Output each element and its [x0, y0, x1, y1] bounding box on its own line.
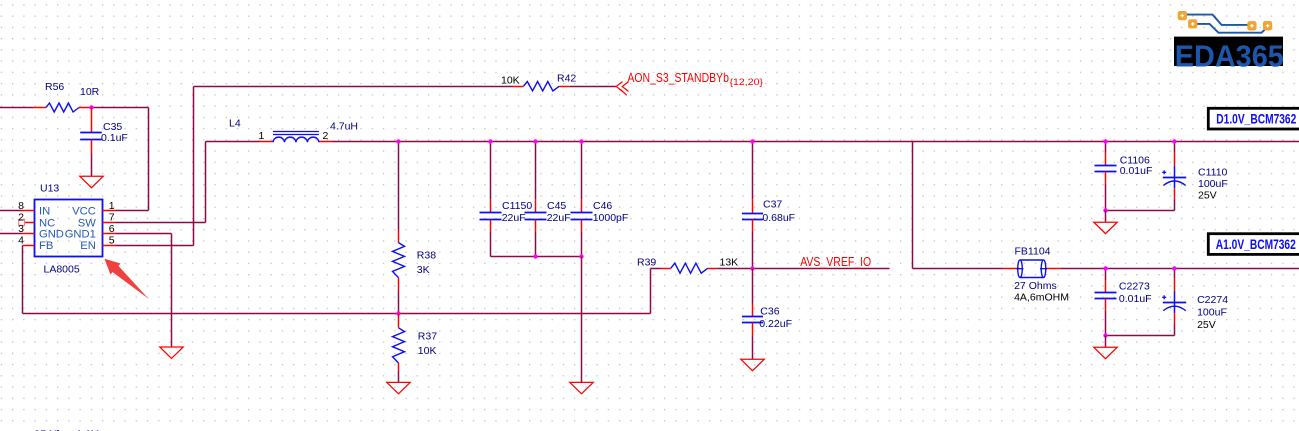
- svg-text:C1150: C1150: [502, 200, 532, 212]
- svg-text:0.68uF: 0.68uF: [762, 212, 795, 224]
- svg-text:D1.0V_BCM7362: D1.0V_BCM7362: [1216, 111, 1296, 127]
- svg-text:C2273: C2273: [1119, 280, 1150, 292]
- svg-text:GND1: GND1: [65, 228, 96, 240]
- svg-text:EDA365: EDA365: [1175, 39, 1284, 73]
- svg-text:1000pF: 1000pF: [593, 212, 629, 224]
- svg-text:{12,20}: {12,20}: [730, 77, 764, 88]
- svg-text:1: 1: [109, 200, 115, 212]
- svg-text:13K: 13K: [720, 257, 739, 269]
- svg-text:EN: EN: [80, 240, 96, 252]
- svg-text:R39: R39: [637, 257, 656, 269]
- svg-text:FB: FB: [39, 240, 53, 252]
- svg-text:3: 3: [18, 223, 24, 235]
- svg-text:6: 6: [109, 223, 115, 235]
- svg-text:VCC: VCC: [72, 205, 96, 217]
- svg-text:2: 2: [18, 212, 24, 224]
- svg-text:0.22uF: 0.22uF: [759, 318, 792, 330]
- svg-text:27 Ohms: 27 Ohms: [1014, 280, 1057, 292]
- svg-text:3K: 3K: [417, 264, 430, 276]
- svg-text:L4: L4: [229, 118, 241, 130]
- svg-text:R38: R38: [417, 250, 436, 262]
- svg-text:25V: 25V: [1198, 189, 1217, 201]
- svg-text:22uF: 22uF: [547, 212, 571, 224]
- svg-text:4A,6mOHM: 4A,6mOHM: [1014, 291, 1069, 303]
- svg-text:AON_S3_STANDBYb: AON_S3_STANDBYb: [627, 71, 729, 85]
- svg-text:C2274: C2274: [1197, 294, 1228, 306]
- svg-text:GND: GND: [39, 228, 64, 240]
- svg-text:100uF: 100uF: [1198, 178, 1228, 190]
- svg-text:8: 8: [18, 200, 24, 212]
- svg-text:R42: R42: [557, 73, 576, 85]
- svg-text:5: 5: [109, 234, 115, 246]
- svg-text:C46: C46: [593, 200, 612, 212]
- svg-text:2: 2: [323, 130, 329, 142]
- svg-text:10R: 10R: [80, 86, 100, 98]
- svg-text:100uF: 100uF: [1197, 306, 1227, 318]
- svg-text:C45: C45: [547, 200, 566, 212]
- svg-text:22uF: 22uF: [502, 212, 526, 224]
- svg-text:IN: IN: [39, 205, 50, 217]
- svg-text:R56: R56: [45, 81, 64, 93]
- svg-text:U13: U13: [40, 183, 59, 195]
- svg-text:4.7uH: 4.7uH: [330, 121, 358, 133]
- svg-text:10K: 10K: [501, 75, 520, 87]
- svg-text:0.1uF: 0.1uF: [101, 132, 128, 144]
- svg-text:10K: 10K: [418, 345, 437, 357]
- svg-text:25V: 25V: [1197, 319, 1216, 331]
- svg-text:7: 7: [109, 212, 115, 224]
- svg-text:4: 4: [18, 234, 24, 246]
- svg-text:C37: C37: [763, 198, 782, 210]
- svg-text:0.01uF: 0.01uF: [1119, 293, 1152, 305]
- svg-text:A1.0V_BCM7362: A1.0V_BCM7362: [1216, 236, 1296, 252]
- svg-text:C1110: C1110: [1198, 166, 1228, 178]
- svg-text:R37: R37: [418, 330, 437, 342]
- svg-text:LA8005: LA8005: [44, 263, 80, 275]
- svg-text:FB1104: FB1104: [1015, 246, 1051, 258]
- svg-text:0.01uF: 0.01uF: [1120, 165, 1153, 177]
- svg-text:C36: C36: [760, 306, 779, 318]
- svg-text:1: 1: [259, 130, 265, 142]
- svg-text:AVS_VREF_IO: AVS_VREF_IO: [800, 255, 871, 269]
